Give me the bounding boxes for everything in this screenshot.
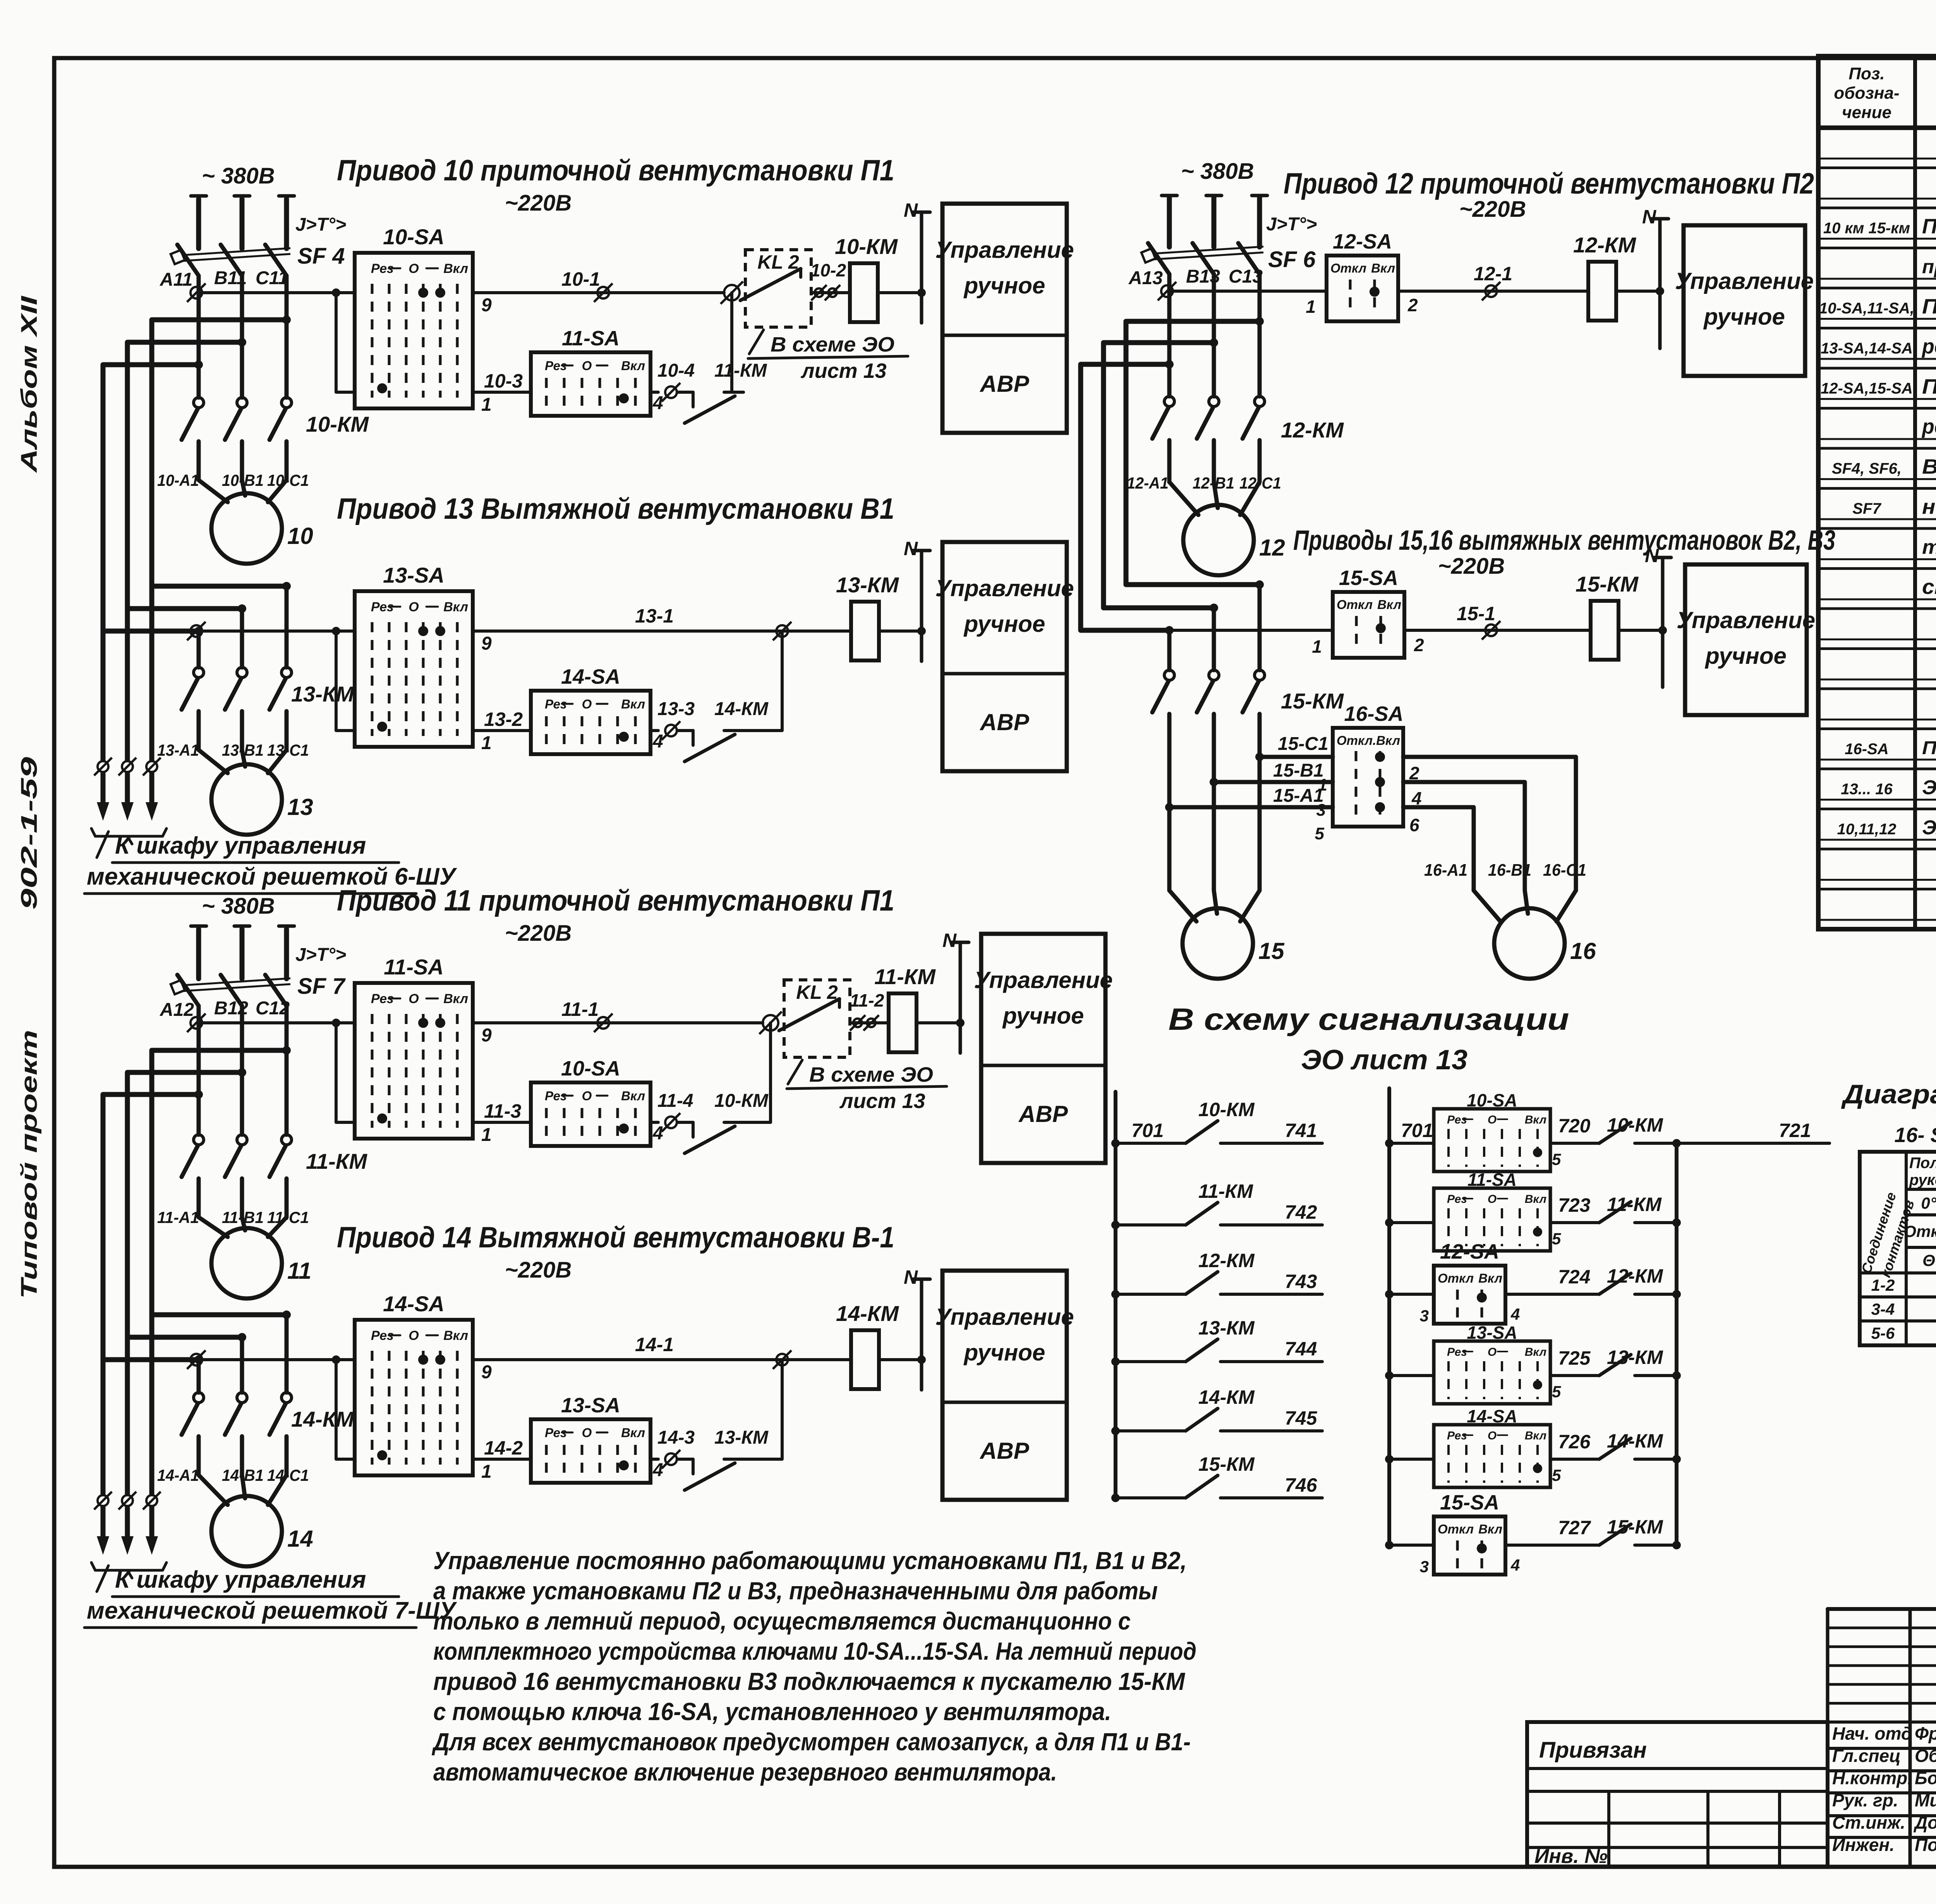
junction bbox=[1255, 753, 1264, 761]
wire bbox=[1550, 1458, 1598, 1461]
contact 12-КМ aux bbox=[1599, 1273, 1677, 1294]
switch 10-SA bbox=[531, 1082, 650, 1146]
svg-text:~ 380В: ~ 380В bbox=[1181, 159, 1254, 184]
svg-text:Вкл: Вкл bbox=[1478, 1522, 1502, 1536]
contactor contacts 14-КМ contacts bbox=[182, 1393, 292, 1435]
labels motor leads 11-А1 bbox=[157, 1208, 309, 1226]
svg-text:11-SA: 11-SA bbox=[562, 327, 620, 350]
svg-text:Вкл: Вкл bbox=[621, 1425, 645, 1440]
svg-text:В схеме ЭО: В схеме ЭО bbox=[809, 1063, 933, 1086]
wire bbox=[1212, 608, 1216, 670]
svg-text:номинальный ток электромагнитн: номинальный ток электромагнитных и bbox=[1922, 495, 1936, 518]
wire feeders to cabinet bbox=[97, 586, 158, 821]
svg-text:13-SA: 13-SA bbox=[1467, 1323, 1517, 1343]
svg-text:9: 9 bbox=[481, 295, 492, 316]
contactor contacts 11-КМ contacts bbox=[182, 1135, 292, 1177]
svg-text:1: 1 bbox=[481, 733, 492, 753]
label 1 bbox=[1306, 297, 1316, 317]
svg-text:746: 746 bbox=[1285, 1474, 1318, 1496]
wire bbox=[199, 291, 355, 294]
junction bbox=[1111, 1357, 1120, 1366]
wire 16 phase B bbox=[1403, 782, 1525, 890]
svg-text:13-КМ: 13-КМ bbox=[1607, 1347, 1663, 1368]
label ~380В SF 7 bbox=[202, 894, 275, 919]
label N bbox=[904, 199, 918, 221]
svg-text:ручное: ручное bbox=[963, 611, 1045, 637]
svg-text:4: 4 bbox=[1510, 1556, 1520, 1574]
svg-text:15-С1: 15-С1 bbox=[1278, 734, 1328, 754]
svg-text:13-А1: 13-А1 bbox=[157, 741, 199, 759]
label motor M13 bbox=[287, 794, 313, 820]
svg-text:5-6: 5-6 bbox=[1871, 1324, 1895, 1342]
thermal contact 11-КМ bbox=[678, 392, 743, 423]
wire bbox=[811, 291, 850, 294]
junction bbox=[238, 1068, 246, 1077]
svg-text:1: 1 bbox=[481, 1125, 492, 1145]
label 15-1 bbox=[1457, 603, 1495, 624]
wire bbox=[285, 1178, 289, 1217]
svg-text:701: 701 bbox=[1401, 1120, 1433, 1141]
label 5 bbox=[1552, 1383, 1561, 1401]
terminal bbox=[187, 283, 206, 302]
svg-text:Пускатель ПМЛ1101 04, 220В, ТУ: Пускатель ПМЛ1101 04, 220В, ТУ16 526.437… bbox=[1922, 215, 1936, 238]
junction bbox=[1672, 1139, 1681, 1148]
svg-text:14-КМ: 14-КМ bbox=[1607, 1430, 1663, 1452]
wire bypass B bbox=[127, 1072, 242, 1337]
svg-text:10-КМ: 10-КМ bbox=[835, 234, 898, 259]
svg-text:J>T°>: J>T°> bbox=[295, 214, 346, 235]
svg-text:чение: чение bbox=[1842, 103, 1891, 122]
wire bbox=[285, 441, 289, 480]
labels phases А12 bbox=[160, 998, 290, 1020]
labels motor leads 13-А1 bbox=[157, 741, 309, 759]
label 701 bbox=[1131, 1120, 1164, 1141]
wire bbox=[473, 1458, 531, 1461]
node bus 701 left bbox=[1114, 1092, 1117, 1498]
table row тепловых максимальных расц bbox=[1922, 536, 1936, 559]
svg-text:743: 743 bbox=[1285, 1271, 1317, 1292]
coil 11-КМ bbox=[889, 993, 917, 1052]
table row степень защиты IР00. ТУ16. bbox=[1922, 575, 1936, 599]
terminal bbox=[118, 1492, 136, 1509]
wire 721 bbox=[1677, 1142, 1830, 1145]
junction bbox=[917, 288, 926, 297]
wire bbox=[242, 1475, 245, 1498]
junction bbox=[1385, 1139, 1394, 1148]
svg-text:15-SA: 15-SA bbox=[1440, 1491, 1499, 1514]
title Привод 13 Вытяжной вентустановки В1 bbox=[337, 492, 894, 525]
label ~380В SF6 bbox=[1181, 159, 1254, 184]
label 14-SA bbox=[383, 1292, 445, 1316]
wire bypass A bbox=[103, 365, 199, 631]
junction bbox=[332, 288, 340, 297]
svg-text:13-В1: 13-В1 bbox=[222, 741, 264, 759]
label 13-2 bbox=[484, 708, 523, 730]
svg-text:Вкл: Вкл bbox=[1525, 1113, 1547, 1126]
wire bbox=[240, 1337, 244, 1393]
svg-text:SF 7: SF 7 bbox=[297, 974, 346, 999]
wire bbox=[1167, 630, 1172, 670]
label 721 bbox=[1779, 1120, 1811, 1141]
label 4 bbox=[652, 1460, 663, 1480]
svg-text:привод 16 вентустановки В3: привод 16 вентустановки В3 подключается … bbox=[433, 1667, 1186, 1695]
label 1 bbox=[481, 395, 492, 415]
switch 14-SA signal bbox=[1434, 1425, 1550, 1487]
terminal bbox=[662, 721, 680, 740]
label 11-КМ contacts bbox=[306, 1149, 367, 1173]
label 9 bbox=[481, 295, 492, 316]
title Привод 12 приточной вентустановки П2 bbox=[1284, 167, 1814, 222]
label 15-С1 bbox=[1278, 734, 1328, 754]
junction bbox=[1255, 317, 1264, 326]
svg-text:9: 9 bbox=[481, 633, 492, 654]
svg-text:J>T°>: J>T°> bbox=[295, 945, 346, 965]
title Привод 10 приточной вентустановки П1 bbox=[337, 154, 894, 216]
label 15-КМ bbox=[1198, 1453, 1255, 1475]
breaker SF 4 bbox=[171, 199, 290, 276]
wire bbox=[240, 1006, 244, 1135]
svg-text:SF 6: SF 6 bbox=[1268, 247, 1316, 272]
contact 15-КМ signal bbox=[1116, 1475, 1322, 1498]
svg-text:0°: 0° bbox=[1921, 1194, 1936, 1212]
svg-text:В схеме ЭО: В схеме ЭО bbox=[771, 333, 894, 356]
svg-text:10-SA: 10-SA bbox=[383, 225, 445, 249]
svg-text:лист 13: лист 13 bbox=[839, 1089, 925, 1113]
svg-text:Переключатель ПКП25-50-12У3, Т: Переключатель ПКП25-50-12У3, ТУ16.526.30… bbox=[1922, 738, 1936, 758]
label 1 bbox=[481, 733, 492, 753]
wire bbox=[473, 1358, 851, 1361]
motor M14 bbox=[211, 1496, 282, 1566]
label 2 bbox=[1407, 295, 1418, 315]
svg-text:Привод 13 Вытяжной вентустанов: Привод 13 Вытяжной вентустановки В1 bbox=[337, 492, 894, 525]
label 12-КМ bbox=[1607, 1265, 1663, 1287]
label 13-1 bbox=[635, 605, 674, 627]
motor M10 bbox=[211, 493, 282, 564]
label 14-3 bbox=[657, 1427, 695, 1448]
switch 11-SA signal bbox=[1434, 1188, 1550, 1251]
label trip units J>T bbox=[1266, 214, 1317, 235]
wire bbox=[1240, 890, 1260, 921]
svg-text:Вкл: Вкл bbox=[1525, 1346, 1547, 1359]
node bus 701 right bbox=[1387, 1088, 1391, 1545]
label 10-КМ contacts bbox=[306, 412, 369, 436]
terminal bbox=[662, 1113, 680, 1132]
wire bbox=[268, 1217, 287, 1237]
svg-text:механической решеткой 7-ШУ: механической решеткой 7-ШУ bbox=[87, 1597, 457, 1624]
wire bbox=[878, 291, 922, 294]
svg-text:15-КМ: 15-КМ bbox=[1576, 572, 1639, 596]
svg-text:Вкл: Вкл bbox=[1371, 261, 1395, 275]
svg-text:Откл.: Откл. bbox=[1337, 733, 1376, 748]
label SF6 bbox=[1268, 247, 1316, 272]
svg-text:степень защиты IР00. ТУ16. 522: степень защиты IР00. ТУ16. 522.064-75 bbox=[1922, 575, 1936, 599]
svg-text:Положение: Положение bbox=[1909, 1154, 1936, 1172]
label 11-3 bbox=[484, 1100, 522, 1122]
switch 11-SA bbox=[531, 352, 650, 416]
label 12-SA bbox=[1333, 230, 1392, 253]
title block texts bbox=[1534, 1724, 1936, 1868]
svg-text:3: 3 bbox=[1420, 1558, 1429, 1576]
wire bbox=[199, 1217, 228, 1237]
switch 15-SA bbox=[1333, 592, 1404, 658]
svg-text:О: О bbox=[582, 1425, 592, 1440]
label N bbox=[942, 930, 957, 951]
svg-text:Для всех вентустановок пред: Для всех вентустановок предусмотрен само… bbox=[432, 1728, 1191, 1756]
wire bbox=[1618, 629, 1663, 632]
svg-text:А13: А13 bbox=[1128, 268, 1163, 288]
svg-text:12-SA: 12-SA bbox=[1440, 1240, 1499, 1263]
junction bbox=[1656, 287, 1664, 295]
svg-text:16-В1: 16-В1 bbox=[1488, 861, 1531, 880]
label 4 bbox=[652, 731, 663, 752]
svg-text:11-SA: 11-SA bbox=[1467, 1170, 1517, 1190]
table row револьверного типа, ТУ16.5 bbox=[1921, 415, 1936, 438]
svg-text:Вкл: Вкл bbox=[443, 261, 468, 276]
wire bbox=[1258, 274, 1262, 396]
svg-text:Фролов: Фролов bbox=[1915, 1724, 1936, 1744]
label 12-SA signal bbox=[1440, 1240, 1499, 1263]
note В схеме ЭО лист 13 bbox=[748, 330, 908, 383]
svg-text:12-А1: 12-А1 bbox=[1127, 474, 1169, 492]
label 11-4 bbox=[657, 1091, 693, 1111]
contact 13-КМ aux bbox=[1599, 1355, 1677, 1376]
wire bbox=[850, 1021, 889, 1024]
junction bbox=[282, 1311, 291, 1319]
svg-text:а также установками П2 и В3,: а также установками П2 и В3, предназначе… bbox=[433, 1577, 1158, 1605]
wire bbox=[917, 1021, 960, 1024]
terminal bbox=[94, 758, 112, 775]
label 724 bbox=[1558, 1266, 1590, 1288]
node bus 721 right bbox=[1675, 1143, 1679, 1545]
label 2 bbox=[1409, 763, 1419, 783]
wire bypass C bbox=[152, 1050, 287, 1315]
wire bbox=[1167, 274, 1172, 396]
contact 12-КМ signal bbox=[1116, 1272, 1322, 1294]
svg-text:14-КМ: 14-КМ bbox=[291, 1407, 354, 1431]
svg-text:только в летний период, ос: только в летний период, осуществляется д… bbox=[433, 1607, 1131, 1635]
svg-text:721: 721 bbox=[1779, 1120, 1811, 1141]
junction bbox=[238, 1333, 246, 1341]
wire bbox=[1169, 482, 1198, 515]
svg-text:Вкл: Вкл bbox=[621, 697, 645, 711]
table pos 16-SA bbox=[1845, 741, 1888, 758]
wire 16 phase C bbox=[1403, 807, 1474, 890]
wire bbox=[1240, 482, 1260, 515]
svg-text:Привод 14 Вытяжной вентустанов: Привод 14 Вытяжной вентустановки В-1 bbox=[337, 1221, 894, 1254]
wire bbox=[240, 609, 244, 667]
title В схему сигнализации ЭО лист 13 bbox=[1169, 1002, 1569, 1076]
junction bbox=[1385, 1218, 1394, 1227]
table pos 10 км 15-км bbox=[1823, 220, 1910, 237]
junction bbox=[282, 1046, 291, 1055]
label 1 bbox=[1318, 775, 1327, 794]
supply SF6 supply bbox=[1162, 196, 1267, 199]
svg-text:N: N bbox=[904, 538, 918, 559]
svg-text:механической решеткой 6-ШУ: механической решеткой 6-ШУ bbox=[87, 863, 457, 890]
label 10-2 bbox=[810, 260, 846, 280]
label 701 bbox=[1401, 1120, 1433, 1141]
terminal bbox=[1482, 282, 1500, 300]
svg-text:Откл.: Откл. bbox=[1903, 1222, 1936, 1240]
wire bbox=[336, 1023, 355, 1122]
svg-text:14-2: 14-2 bbox=[484, 1437, 523, 1459]
svg-text:16: 16 bbox=[1570, 938, 1596, 964]
svg-text:Рук. гр.: Рук. гр. bbox=[1832, 1790, 1898, 1810]
switch 13-SA bbox=[531, 1419, 650, 1483]
wire bbox=[650, 1121, 658, 1124]
wire bbox=[1505, 1293, 1598, 1296]
margin caption Альбом XII bbox=[17, 295, 42, 473]
svg-text:Н.контр.: Н.контр. bbox=[1832, 1768, 1912, 1788]
svg-text:С11: С11 bbox=[256, 268, 288, 288]
junction bbox=[1111, 1290, 1120, 1298]
terminal bbox=[721, 281, 743, 304]
label 13-КМ bbox=[836, 573, 899, 597]
svg-text:10-КМ: 10-КМ bbox=[1607, 1114, 1663, 1136]
labels phases А11 bbox=[160, 268, 288, 290]
table row Переключатель УП5311-И25, bbox=[1922, 375, 1936, 398]
label 10-SA bbox=[561, 1057, 620, 1080]
wire branch 726 bbox=[1389, 1458, 1434, 1461]
svg-text:Управление: Управление bbox=[1675, 268, 1814, 294]
junction bbox=[194, 627, 203, 635]
wire bbox=[336, 631, 355, 731]
terminal bbox=[773, 1350, 791, 1369]
svg-text:10-В1: 10-В1 bbox=[222, 471, 264, 489]
table row номинальный ток электромаг bbox=[1922, 495, 1936, 518]
label trip units J>T bbox=[295, 214, 346, 235]
wire bbox=[473, 630, 851, 633]
label 13-SA bbox=[561, 1394, 620, 1417]
wire bbox=[240, 711, 244, 750]
svg-text:Поз.: Поз. bbox=[1848, 64, 1885, 83]
svg-text:13-КМ: 13-КМ bbox=[291, 682, 354, 706]
label N bbox=[1642, 206, 1656, 228]
junction bbox=[282, 582, 291, 590]
svg-text:Инв. №: Инв. № bbox=[1534, 1845, 1608, 1868]
label 5 bbox=[1552, 1230, 1561, 1248]
wire 16 phase A bbox=[1403, 757, 1576, 890]
labels motor leads 10-А1 bbox=[157, 471, 309, 489]
margin caption 902-1-59 bbox=[17, 757, 42, 910]
junction bbox=[332, 1355, 340, 1364]
coil 15-КМ coil bbox=[1591, 601, 1618, 660]
svg-text:Гл.спец: Гл.спец bbox=[1832, 1746, 1901, 1766]
svg-text:5: 5 bbox=[1552, 1230, 1561, 1248]
switch 13-SA bbox=[355, 591, 473, 747]
wire bbox=[1525, 890, 1528, 914]
wire bbox=[1474, 890, 1500, 921]
svg-text:1-2: 1-2 bbox=[1871, 1276, 1895, 1294]
svg-text:Управление: Управление bbox=[935, 237, 1074, 263]
svg-text:14-КМ: 14-КМ bbox=[836, 1301, 899, 1326]
switch 10-SA bbox=[355, 253, 473, 408]
label 10-КМ bbox=[714, 1091, 769, 1111]
junction bbox=[1210, 338, 1218, 347]
motor M11 bbox=[211, 1228, 282, 1298]
wire bbox=[879, 1358, 922, 1361]
svg-text:10-2: 10-2 bbox=[810, 260, 846, 280]
title Диаграммы замыкания контактов переключателей bbox=[1841, 1079, 1936, 1109]
table pos 13... 16 bbox=[1841, 781, 1893, 798]
label 725 bbox=[1558, 1347, 1591, 1369]
svg-text:Вкл: Вкл bbox=[1377, 597, 1401, 612]
svg-text:Откл: Откл bbox=[1438, 1271, 1474, 1285]
svg-text:10-4: 10-4 bbox=[657, 360, 695, 381]
svg-text:11-КМ: 11-КМ bbox=[714, 360, 767, 381]
label 11-1 bbox=[561, 998, 599, 1020]
breaker SF6 bbox=[1141, 197, 1263, 274]
wire bbox=[1550, 1142, 1598, 1145]
label 11-КМ bbox=[874, 964, 936, 989]
label 727 bbox=[1558, 1517, 1591, 1539]
svg-text:14-SA: 14-SA bbox=[1467, 1406, 1517, 1426]
svg-text:11-В1: 11-В1 bbox=[222, 1208, 264, 1226]
switch 10-SA signal bbox=[1434, 1109, 1550, 1172]
table row Электродвигатель 4АА63В4У3 bbox=[1922, 777, 1936, 799]
svg-text:10-SA: 10-SA bbox=[1467, 1090, 1517, 1110]
junction bbox=[1385, 1290, 1394, 1298]
svg-text:О: О bbox=[408, 991, 419, 1006]
terminal bbox=[187, 622, 206, 640]
svg-text:720: 720 bbox=[1558, 1115, 1591, 1137]
wire bbox=[197, 711, 201, 750]
node N bbox=[913, 551, 930, 661]
svg-text:11-SA: 11-SA bbox=[384, 955, 444, 979]
wire bbox=[473, 391, 531, 394]
svg-text:701: 701 bbox=[1131, 1120, 1164, 1141]
wire bbox=[1212, 274, 1216, 396]
title Привод 11 приточной вентустановки П1 bbox=[337, 884, 894, 946]
svg-text:4: 4 bbox=[652, 1460, 663, 1480]
label 9 bbox=[481, 633, 492, 654]
junction bbox=[1255, 580, 1264, 589]
svg-text:5: 5 bbox=[1552, 1466, 1561, 1484]
switch 15-SA signal bbox=[1434, 1516, 1505, 1575]
label N bbox=[904, 1266, 918, 1288]
label 720 bbox=[1558, 1115, 1591, 1137]
label 744 bbox=[1285, 1338, 1317, 1360]
svg-text:Управление постоянно работаю: Управление постоянно работающими установ… bbox=[433, 1547, 1187, 1575]
wire bbox=[199, 480, 228, 502]
wire bbox=[242, 1217, 245, 1230]
node N bbox=[1651, 219, 1668, 348]
svg-text:О: О bbox=[1488, 1113, 1497, 1126]
coil 14-КМ bbox=[851, 1330, 879, 1389]
svg-text:Управление: Управление bbox=[1677, 607, 1815, 633]
wire bbox=[743, 1360, 782, 1459]
svg-text:О: О bbox=[408, 1328, 419, 1343]
svg-text:Обозная: Обозная bbox=[1915, 1746, 1936, 1766]
svg-text:1: 1 bbox=[481, 395, 492, 415]
svg-text:13... 16: 13... 16 bbox=[1841, 781, 1893, 798]
thermal contact 14-КМ bbox=[678, 731, 743, 762]
wire bbox=[285, 1006, 289, 1135]
label motor M10 bbox=[287, 523, 313, 549]
label 16-SA diagram bbox=[1894, 1124, 1936, 1147]
label 13-КМ bbox=[714, 1427, 769, 1448]
label 743 bbox=[1285, 1271, 1317, 1292]
svg-text:Вкл: Вкл bbox=[621, 359, 645, 373]
label trip units J>T bbox=[295, 945, 346, 965]
wire bbox=[197, 276, 201, 398]
terminal bbox=[662, 1450, 680, 1468]
box Управление ручное / АВР bbox=[935, 204, 1074, 433]
label 741 bbox=[1285, 1120, 1317, 1141]
label motor M16 bbox=[1570, 938, 1596, 964]
terminal bbox=[773, 622, 791, 640]
svg-text:10-SA,11-SA,: 10-SA,11-SA, bbox=[1819, 300, 1914, 317]
